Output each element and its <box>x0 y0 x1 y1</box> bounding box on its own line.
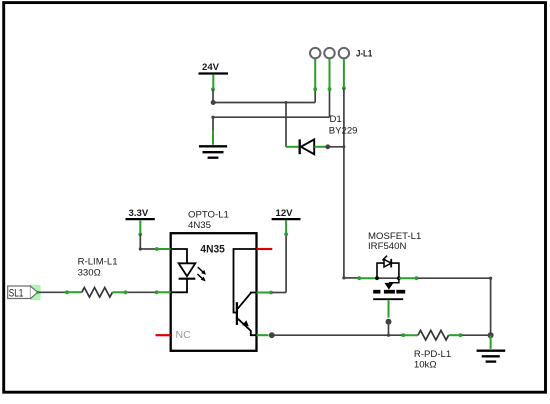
node emitter junction <box>269 332 275 338</box>
supply 12V <box>272 208 301 219</box>
pin opto NC <box>156 334 171 336</box>
phototransistor inside opto <box>234 249 257 335</box>
resistor R-PD-L1 <box>401 330 490 340</box>
svg-text:4N35: 4N35 <box>188 220 211 231</box>
node diode anode dot <box>325 144 330 149</box>
pin opto collector <box>257 291 273 295</box>
wire to ground right <box>490 335 492 349</box>
pin opto cathode (2) <box>155 290 171 294</box>
pin opto emitter <box>257 334 269 336</box>
svg-text:R-LIM-L1: R-LIM-L1 <box>78 256 118 267</box>
node 24V junction <box>211 100 216 105</box>
LED light arrows <box>197 267 206 281</box>
supply 3.3V <box>126 208 155 219</box>
connector SL1 <box>8 285 41 300</box>
op-amp OPTO-L1 body <box>171 233 257 351</box>
wire R-LIM to opto pin2 <box>112 290 155 294</box>
wire 24V stub <box>211 75 215 103</box>
transistor MOSFET-L1 <box>373 256 405 300</box>
svg-text:4N35: 4N35 <box>200 243 224 255</box>
wire diode cathode drop <box>285 103 287 147</box>
pin opto anode (1) <box>155 247 171 251</box>
wire 24V horizontal <box>213 101 315 104</box>
wire pin3 net to MOSFET drain <box>342 276 377 280</box>
wire from J-L1 pin3 down <box>342 59 346 278</box>
svg-text:12V: 12V <box>276 208 294 219</box>
diode D1 <box>286 139 328 154</box>
svg-text:SL1: SL1 <box>9 287 23 299</box>
resistor R-LIM-L1 <box>82 288 113 298</box>
svg-text:R-PD-L1: R-PD-L1 <box>414 349 451 360</box>
wire collector to 12V <box>272 220 288 292</box>
svg-text:24V: 24V <box>202 62 220 73</box>
wire gate down <box>386 300 392 335</box>
pin MOSFET source side <box>399 276 491 280</box>
wire to J-L1 pin1 <box>313 59 317 103</box>
svg-text:IRF540N: IRF540N <box>368 241 406 252</box>
wire ground horizontal <box>211 116 329 145</box>
connector J-L1 pin3 <box>339 48 349 58</box>
ground symbol right <box>477 351 506 362</box>
wire emitter to gate to R-PD <box>272 334 402 337</box>
ground symbol left <box>199 146 227 157</box>
svg-text:BY229: BY229 <box>329 126 358 137</box>
supply 24V <box>199 62 229 74</box>
LED inside opto <box>171 249 196 292</box>
svg-text:J-L1: J-L1 <box>356 49 372 59</box>
wire right vertical (source to gnd) <box>489 277 492 336</box>
svg-text:10kΩ: 10kΩ <box>414 359 437 370</box>
wire to J-L1 pin2 <box>328 59 332 117</box>
svg-text:330Ω: 330Ω <box>78 268 101 279</box>
svg-text:3.3V: 3.3V <box>129 208 149 219</box>
wire diode anode to pin3 net <box>328 146 344 148</box>
connector J-L1 pin2 <box>324 48 334 58</box>
svg-text:D1: D1 <box>330 114 342 125</box>
node bottom-right junction <box>488 332 494 338</box>
wire 3.3V to opto pin1 <box>138 220 155 250</box>
pin opto base (red) <box>257 248 273 250</box>
svg-text:NC: NC <box>176 329 192 341</box>
svg-text:OPTO-L1: OPTO-L1 <box>188 209 229 220</box>
wire SL1 to R-LIM <box>39 290 82 294</box>
connector J-L1 pin1 <box>310 48 320 58</box>
